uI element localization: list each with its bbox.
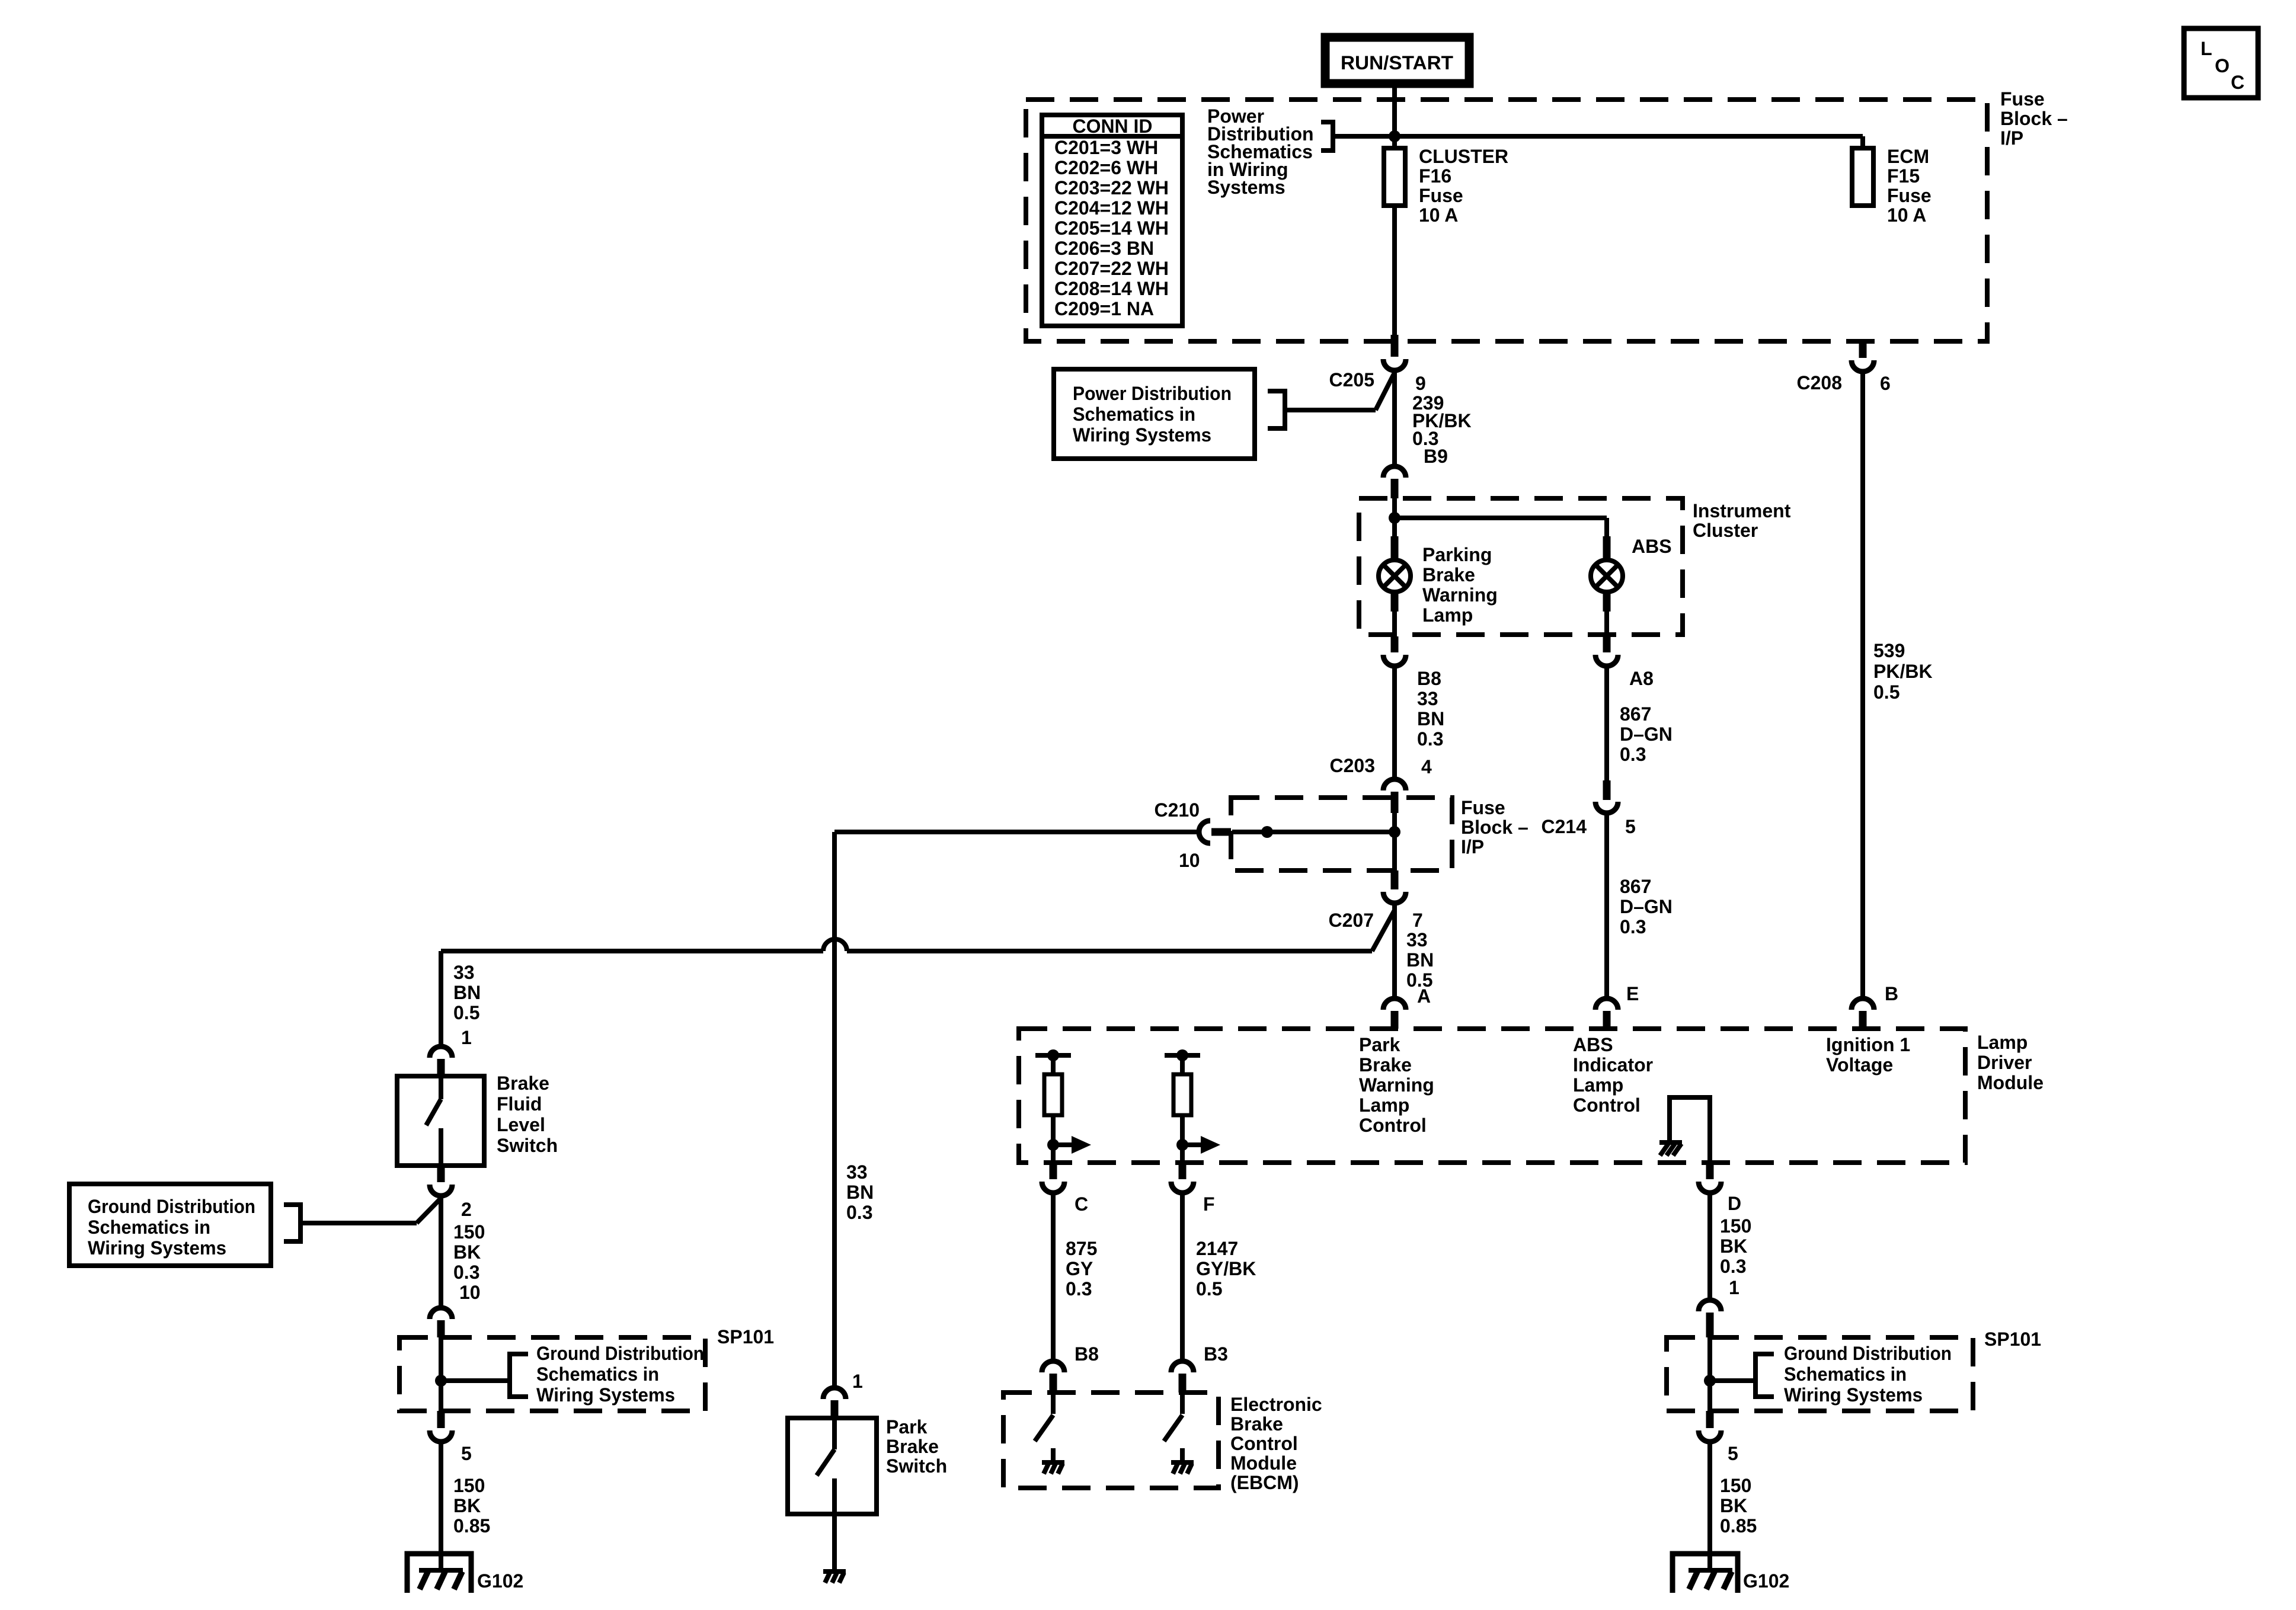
svg-text:C205=14 WH: C205=14 WH xyxy=(1054,217,1169,239)
svg-text:Power Distribution: Power Distribution xyxy=(1073,383,1232,404)
svg-text:Lamp: Lamp xyxy=(1422,604,1473,626)
svg-text:0.3: 0.3 xyxy=(846,1202,872,1223)
svg-text:Control: Control xyxy=(1359,1115,1427,1136)
svg-text:5: 5 xyxy=(461,1443,472,1464)
svg-text:C203=22 WH: C203=22 WH xyxy=(1054,177,1169,199)
svg-text:Block –: Block – xyxy=(1461,817,1528,838)
svg-text:Block –: Block – xyxy=(2000,108,2068,129)
wire corner into brake fluid column xyxy=(439,951,443,1045)
svg-text:Schematics in: Schematics in xyxy=(536,1363,659,1385)
svg-text:Schematics in: Schematics in xyxy=(88,1217,210,1238)
svg-text:GY: GY xyxy=(1066,1258,1093,1279)
svg-text:Fuse: Fuse xyxy=(1461,797,1505,818)
parking brake warning lamp xyxy=(1391,536,1399,560)
wire feed to ECM fuse xyxy=(1333,134,1863,139)
svg-text:BN: BN xyxy=(1406,949,1434,971)
svg-text:BK: BK xyxy=(1720,1495,1747,1516)
svg-text:B3: B3 xyxy=(1204,1343,1228,1365)
svg-text:C204=12 WH: C204=12 WH xyxy=(1054,197,1169,219)
svg-text:Ground Distribution: Ground Distribution xyxy=(1784,1343,1952,1364)
svg-text:0.5: 0.5 xyxy=(1873,681,1900,703)
svg-text:Switch: Switch xyxy=(886,1455,947,1477)
svg-text:2: 2 xyxy=(461,1199,472,1220)
svg-text:Driver: Driver xyxy=(1977,1052,2032,1073)
svg-text:Voltage: Voltage xyxy=(1826,1054,1893,1076)
CONN ID table xyxy=(1042,115,1182,326)
svg-text:Systems: Systems xyxy=(1207,177,1285,198)
svg-text:2147: 2147 xyxy=(1196,1238,1238,1259)
svg-text:0.3: 0.3 xyxy=(1720,1256,1746,1277)
chassis ground (park brake) xyxy=(823,1569,846,1574)
wire A8 to C214 xyxy=(1604,668,1609,780)
EBCM dashed box xyxy=(1003,1393,1219,1488)
svg-text:C207: C207 xyxy=(1329,910,1374,931)
wire C208 to B xyxy=(1860,374,1865,997)
svg-text:C: C xyxy=(1075,1193,1088,1215)
svg-text:Wiring Systems: Wiring Systems xyxy=(88,1237,226,1259)
svg-text:Module: Module xyxy=(1230,1452,1297,1474)
svg-text:C201=3 WH: C201=3 WH xyxy=(1054,137,1158,158)
connector 1 (park brake) xyxy=(823,1388,846,1399)
svg-text:Control: Control xyxy=(1230,1433,1298,1454)
connector D xyxy=(1706,1163,1714,1179)
connector E xyxy=(1595,998,1618,1010)
svg-text:Park: Park xyxy=(886,1416,928,1438)
svg-text:BK: BK xyxy=(453,1495,481,1516)
svg-text:4: 4 xyxy=(1421,756,1432,777)
svg-text:C202=6 WH: C202=6 WH xyxy=(1054,157,1158,178)
wire 2 to 10 xyxy=(439,1198,443,1307)
svg-text:Lamp: Lamp xyxy=(1977,1032,2028,1053)
wire to ground distribution reference xyxy=(417,1198,441,1223)
svg-text:ABS: ABS xyxy=(1632,536,1672,557)
ground G102 (left) xyxy=(407,1554,471,1593)
svg-text:Wiring Systems: Wiring Systems xyxy=(1073,424,1211,446)
svg-text:Park: Park xyxy=(1359,1034,1400,1055)
connector C203 pin 4 xyxy=(1383,779,1406,790)
svg-text:0.3: 0.3 xyxy=(1066,1278,1092,1299)
svg-text:9: 9 xyxy=(1415,373,1426,394)
svg-text:CLUSTER: CLUSTER xyxy=(1419,146,1508,167)
svg-text:PK/BK: PK/BK xyxy=(1873,661,1933,682)
svg-text:CONN ID: CONN ID xyxy=(1073,116,1153,137)
wire RUN/START down to fuse F16 xyxy=(1392,84,1397,148)
connector B8 (EBCM) xyxy=(1042,1361,1064,1372)
svg-text:I/P: I/P xyxy=(1461,836,1484,857)
module internal ground hook xyxy=(1670,1097,1710,1163)
svg-text:I/P: I/P xyxy=(2000,127,2023,149)
bracket to power distribution label xyxy=(1321,122,1333,151)
connector A xyxy=(1383,998,1406,1010)
svg-text:BN: BN xyxy=(846,1182,874,1203)
svg-text:5: 5 xyxy=(1728,1443,1738,1464)
svg-text:Fuse: Fuse xyxy=(1887,185,1932,206)
EBCM switch 2 xyxy=(1180,1393,1185,1414)
svg-text:C209=1 NA: C209=1 NA xyxy=(1054,298,1154,319)
svg-text:867: 867 xyxy=(1620,703,1651,725)
svg-text:1: 1 xyxy=(461,1027,472,1048)
svg-text:6: 6 xyxy=(1880,373,1891,394)
bracket ground distribution (left box) xyxy=(284,1205,300,1241)
svg-text:C: C xyxy=(2231,72,2244,93)
svg-text:C203: C203 xyxy=(1330,755,1376,776)
svg-text:0.3: 0.3 xyxy=(1620,916,1646,937)
wire B8 to C203 xyxy=(1392,668,1397,777)
wire F16 to C205 xyxy=(1392,206,1397,338)
svg-text:C206=3 BN: C206=3 BN xyxy=(1054,238,1154,259)
wire to ABS lamp xyxy=(1395,516,1607,520)
svg-text:33: 33 xyxy=(1417,688,1438,709)
svg-text:Wiring Systems: Wiring Systems xyxy=(536,1384,675,1406)
bracket from reference box xyxy=(1268,391,1285,428)
svg-text:B9: B9 xyxy=(1424,446,1448,467)
svg-text:F16: F16 xyxy=(1419,165,1451,187)
lamp driver module dashed box xyxy=(1019,1029,1965,1163)
svg-text:Fuse: Fuse xyxy=(1419,185,1463,206)
svg-text:C205: C205 xyxy=(1329,369,1375,391)
wire D down to splice xyxy=(1707,1195,1712,1299)
svg-text:BN: BN xyxy=(1417,708,1444,729)
svg-text:867: 867 xyxy=(1620,876,1651,897)
wire through fuse block xyxy=(1392,813,1397,870)
wire C205 to B9 xyxy=(1392,373,1397,465)
svg-text:BK: BK xyxy=(453,1241,481,1263)
fuse F15 ECM 10A xyxy=(1852,148,1873,206)
svg-text:0.5: 0.5 xyxy=(1196,1278,1222,1299)
svg-text:BK: BK xyxy=(1720,1235,1747,1257)
park brake switch box xyxy=(788,1418,877,1514)
wire to G102 left xyxy=(439,1444,443,1571)
wire F to EBCM B3 xyxy=(1180,1195,1185,1360)
svg-text:Fuse: Fuse xyxy=(2000,88,2045,110)
wires lamps to cluster edge xyxy=(1392,612,1397,636)
svg-text:Warning: Warning xyxy=(1422,584,1498,606)
svg-text:Switch: Switch xyxy=(497,1135,558,1156)
svg-text:150: 150 xyxy=(453,1221,485,1243)
svg-text:33: 33 xyxy=(453,962,475,983)
svg-text:0.3: 0.3 xyxy=(1417,728,1443,750)
svg-text:G102: G102 xyxy=(477,1570,523,1592)
svg-text:ECM: ECM xyxy=(1887,146,1929,167)
module internal: ABS lamp driver (resistor + arrow) xyxy=(1165,1053,1200,1058)
svg-text:D–GN: D–GN xyxy=(1620,896,1673,917)
svg-text:33: 33 xyxy=(1406,929,1428,950)
connector C207 pin 7 xyxy=(1391,870,1399,889)
svg-text:Schematics in: Schematics in xyxy=(1073,404,1195,425)
node inside fuse block xyxy=(1389,826,1400,838)
svg-text:Control: Control xyxy=(1573,1094,1641,1116)
EBCM switch 1 xyxy=(1051,1393,1056,1414)
connector C xyxy=(1050,1163,1057,1179)
instrument cluster dashed box xyxy=(1359,498,1683,635)
splice SP101 dashed box (left) xyxy=(399,1337,705,1411)
svg-text:Module: Module xyxy=(1977,1072,2044,1093)
svg-text:5: 5 xyxy=(1625,816,1636,837)
connector 5 (left) xyxy=(437,1411,445,1428)
node SP101 left xyxy=(435,1375,447,1387)
svg-text:10: 10 xyxy=(1179,850,1200,871)
connector B xyxy=(1851,998,1874,1010)
svg-text:10: 10 xyxy=(459,1282,481,1303)
connector 5 (right) xyxy=(1706,1411,1714,1428)
long wire to brake fluid level switch (with hop) xyxy=(441,949,823,953)
svg-text:Ground Distribution: Ground Distribution xyxy=(88,1196,255,1217)
svg-text:0.85: 0.85 xyxy=(1720,1515,1757,1537)
fuse block I/P dashed box xyxy=(1026,100,1987,341)
svg-text:(EBCM): (EBCM) xyxy=(1230,1472,1299,1493)
svg-text:B8: B8 xyxy=(1075,1343,1099,1365)
wire into cluster xyxy=(1392,498,1397,536)
reference box Power Distribution Schematics in Wiring Systems xyxy=(1054,369,1255,459)
svg-text:33: 33 xyxy=(846,1161,868,1183)
svg-text:0.5: 0.5 xyxy=(453,1002,479,1023)
svg-text:150: 150 xyxy=(1720,1475,1751,1496)
svg-text:C214: C214 xyxy=(1542,816,1587,837)
connector 1 (right column) xyxy=(1699,1300,1721,1311)
svg-text:Ignition 1: Ignition 1 xyxy=(1826,1034,1910,1055)
reference box Ground Distribution Schematics in Wiring Systems xyxy=(69,1184,271,1266)
svg-text:539: 539 xyxy=(1873,640,1905,661)
splice SP101 dashed box (right) xyxy=(1667,1337,1973,1411)
svg-text:RUN/START: RUN/START xyxy=(1341,52,1453,73)
wire to G102 right xyxy=(1707,1444,1712,1571)
svg-text:SP101: SP101 xyxy=(1984,1329,2041,1350)
svg-text:G102: G102 xyxy=(1743,1570,1789,1592)
svg-text:A8: A8 xyxy=(1629,668,1654,689)
svg-text:Lamp: Lamp xyxy=(1573,1074,1623,1096)
module internal: park brake lamp driver (resistor + arrow) xyxy=(1035,1053,1071,1058)
module internal chassis ground xyxy=(1659,1140,1682,1145)
ignition switch RUN/START feed box xyxy=(1325,37,1469,84)
svg-text:Schematics in: Schematics in xyxy=(1784,1363,1907,1385)
brake fluid switch contacts xyxy=(439,1076,443,1099)
bracket SP101 right xyxy=(1755,1354,1774,1397)
svg-text:GY/BK: GY/BK xyxy=(1196,1258,1256,1279)
svg-text:Electronic: Electronic xyxy=(1230,1394,1322,1415)
connector A8 xyxy=(1603,636,1611,652)
connector C208 pin 6 xyxy=(1859,343,1867,358)
wire C to EBCM B8 xyxy=(1051,1195,1056,1360)
wire park brake switch to C210 xyxy=(834,830,1197,834)
svg-text:C208=14 WH: C208=14 WH xyxy=(1054,278,1169,299)
connector C210 pin 10 xyxy=(1199,821,1210,843)
ground G102 (right) xyxy=(1673,1554,1738,1593)
svg-text:C208: C208 xyxy=(1797,372,1843,393)
svg-text:1: 1 xyxy=(852,1371,863,1392)
node SP101 right xyxy=(1704,1375,1716,1387)
wire C207 to A with branch diagonal xyxy=(1392,905,1397,997)
connector F xyxy=(1179,1163,1187,1179)
svg-text:10 A: 10 A xyxy=(1419,204,1458,226)
svg-text:Brake: Brake xyxy=(1230,1413,1283,1435)
svg-text:SP101: SP101 xyxy=(717,1326,774,1347)
svg-text:D: D xyxy=(1728,1193,1741,1214)
svg-text:Lamp: Lamp xyxy=(1359,1094,1409,1116)
wire switch to chassis ground xyxy=(832,1514,837,1571)
fuse F16 CLUSTER 10A xyxy=(1384,148,1405,206)
svg-text:B8: B8 xyxy=(1417,668,1441,689)
node: lamp feed junction xyxy=(1389,512,1400,524)
svg-text:D–GN: D–GN xyxy=(1620,724,1673,745)
fuse block I/P lower dashed box xyxy=(1231,798,1452,870)
svg-text:Cluster: Cluster xyxy=(1693,520,1758,541)
svg-text:150: 150 xyxy=(453,1475,485,1496)
svg-text:Brake: Brake xyxy=(1359,1054,1412,1076)
connector B9 xyxy=(1383,466,1406,478)
svg-text:Wiring Systems: Wiring Systems xyxy=(1784,1384,1923,1406)
svg-text:F15: F15 xyxy=(1887,165,1920,187)
svg-text:O: O xyxy=(2215,55,2230,76)
wire reference to C205 xyxy=(1285,408,1376,412)
wire C214 to E xyxy=(1604,815,1609,997)
svg-text:Fluid: Fluid xyxy=(497,1093,542,1115)
svg-text:ABS: ABS xyxy=(1573,1034,1613,1055)
bracket SP101 left xyxy=(510,1354,528,1397)
svg-text:L: L xyxy=(2201,38,2212,59)
svg-text:Ground Distribution: Ground Distribution xyxy=(536,1343,704,1364)
connector B8 (cluster) xyxy=(1391,636,1399,652)
svg-text:0.3: 0.3 xyxy=(453,1262,479,1283)
svg-text:875: 875 xyxy=(1066,1238,1097,1259)
svg-text:10 A: 10 A xyxy=(1887,204,1926,226)
connector C214 pin 5 xyxy=(1603,780,1611,800)
connector 1 (brake fluid) xyxy=(430,1046,452,1058)
svg-text:F: F xyxy=(1203,1193,1215,1215)
connector 10 xyxy=(430,1308,452,1319)
ABS lamp xyxy=(1603,536,1611,560)
brake fluid level switch box xyxy=(397,1076,484,1166)
wire C210 branch down to park brake switch xyxy=(832,832,837,1387)
svg-text:Instrument: Instrument xyxy=(1693,500,1791,521)
svg-text:C210: C210 xyxy=(1155,799,1200,821)
LOC legend box xyxy=(2184,28,2258,98)
connector B3 (EBCM) xyxy=(1171,1361,1194,1372)
svg-text:Brake: Brake xyxy=(1422,564,1475,585)
node: feed junction xyxy=(1389,130,1400,142)
wire C210 to main xyxy=(1232,830,1395,834)
node on C210 wire xyxy=(1261,826,1273,838)
connector C205 pin 9 xyxy=(1391,335,1399,357)
svg-text:Brake: Brake xyxy=(497,1073,549,1094)
connector 2 xyxy=(437,1166,445,1182)
svg-text:7: 7 xyxy=(1412,910,1423,931)
svg-text:150: 150 xyxy=(1720,1215,1751,1237)
svg-text:Indicator: Indicator xyxy=(1573,1054,1653,1076)
svg-text:Warning: Warning xyxy=(1359,1074,1434,1096)
svg-text:Parking: Parking xyxy=(1422,544,1492,565)
svg-text:A: A xyxy=(1417,985,1431,1007)
svg-text:Level: Level xyxy=(497,1114,545,1135)
park brake switch contacts xyxy=(832,1418,837,1449)
svg-text:B: B xyxy=(1885,983,1898,1004)
svg-text:C207=22 WH: C207=22 WH xyxy=(1054,258,1169,279)
svg-text:Brake: Brake xyxy=(886,1436,939,1457)
svg-text:BN: BN xyxy=(453,982,481,1003)
svg-text:0.3: 0.3 xyxy=(1620,744,1646,765)
svg-text:E: E xyxy=(1626,983,1639,1004)
svg-text:0.85: 0.85 xyxy=(453,1515,490,1537)
svg-text:1: 1 xyxy=(1729,1277,1739,1298)
